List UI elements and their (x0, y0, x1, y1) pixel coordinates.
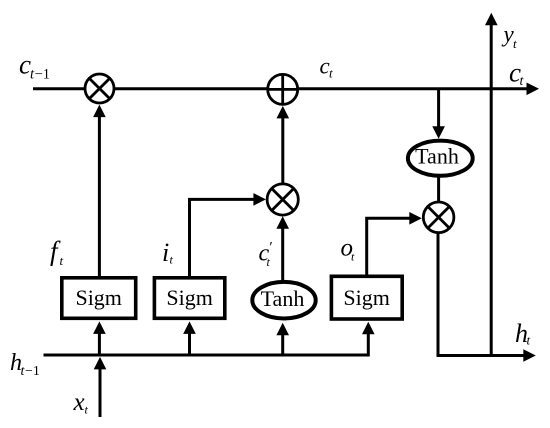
svg-text:−1: −1 (25, 364, 40, 379)
wire: middle multiply output up into add node (277, 106, 290, 183)
wire: Sigm f-gate output up into left multiply node (93, 105, 106, 277)
label c_t (after add node) (320, 53, 334, 80)
multiply node (middle, input gate) (267, 184, 298, 215)
svg-text:t: t (170, 253, 174, 267)
svg-text:t: t (520, 74, 525, 89)
svg-text:−1: −1 (35, 66, 50, 82)
ellipse: Tanh candidate (252, 282, 315, 319)
box U3: Sigm output gate (331, 276, 402, 319)
label h_{t-1} (10, 350, 40, 379)
wire: right multiply output down then right, h_t output arrow (438, 232, 536, 362)
svg-text:Sigm: Sigm (343, 285, 389, 310)
svg-text:Sigm: Sigm (75, 285, 121, 310)
wire: Sigm i-gate output up then right into middle multiply node (190, 193, 266, 277)
svg-text:t: t (267, 255, 271, 269)
svg-text:Sigm: Sigm (166, 285, 212, 310)
label h_t (515, 319, 531, 348)
wire: arrow from h line up into Sigm f-gate (93, 321, 106, 354)
multiply node (right, output gate) (423, 202, 454, 233)
svg-text:Tanh: Tanh (261, 286, 305, 311)
label c_t (right output) (509, 58, 525, 90)
wire: x_t input vertical with arrow onto h line (94, 357, 107, 417)
wire: h input horizontal line, turns up into Sigm o-gate (44, 322, 375, 355)
box U2: Sigm input gate (154, 278, 224, 319)
add node (on c line) (268, 74, 298, 104)
wire: y_t output vertical line (485, 13, 498, 357)
wire: output Tanh ellipse down to right multiply node (437, 176, 440, 203)
svg-text:′: ′ (269, 240, 273, 256)
multiply node (forget gate, on c line) (85, 74, 114, 103)
wire: Sigm o-gate output up then right into right multiply node (367, 212, 422, 276)
svg-text:t: t (527, 333, 531, 348)
svg-text:Tanh: Tanh (415, 144, 459, 169)
label i_t (162, 238, 174, 267)
label x_t (73, 389, 89, 417)
svg-text:t: t (85, 403, 89, 417)
label o_t (341, 235, 356, 264)
wire: candidate Tanh output up into middle multiply node (276, 216, 289, 280)
wire: cell state line c (top horizontal) (33, 83, 539, 96)
label c_{t-1} (19, 50, 50, 83)
svg-text:t: t (329, 66, 333, 81)
svg-text:i: i (162, 238, 169, 267)
ellipse: output Tanh (408, 141, 473, 176)
box U1: Sigm forget gate (62, 278, 136, 319)
svg-text:t: t (351, 250, 355, 264)
wire: arrow from h line up into candidate Tanh ellipse (276, 323, 289, 354)
wire: branch from c line down into output Tanh ellipse (432, 89, 445, 139)
wire: arrow from h line up into Sigm i-gate (183, 321, 196, 354)
svg-text:x: x (73, 389, 85, 416)
label y_t (502, 22, 518, 52)
svg-text:t: t (60, 253, 64, 268)
label c_t' (candidate) (259, 240, 273, 270)
label f_t (50, 236, 64, 268)
svg-text:t: t (513, 36, 517, 51)
